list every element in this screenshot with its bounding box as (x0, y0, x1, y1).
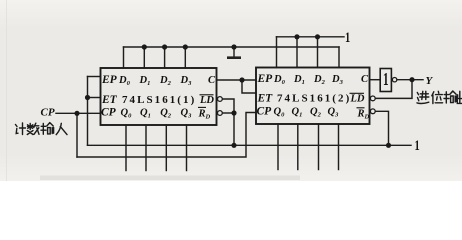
svg-text:74LS161(2): 74LS161(2) (277, 93, 351, 105)
faint scan crease left (6, 0, 7, 181)
faint bleed-through smudge bottom (40, 176, 300, 181)
text: 进位输出 (carry output) hand-drawn glyphs (417, 91, 462, 104)
wire: CP bottom rail to U2 CP (77, 113, 256, 158)
ground symbol on D rail (227, 47, 241, 58)
char 入 (56, 123, 67, 134)
svg-text:74LS161(1): 74LS161(1) (122, 94, 196, 106)
wire: U1 C output to U2 EP (217, 79, 257, 81)
wire: U2 Q3 output stub (338, 124, 340, 170)
node: ground junction (231, 44, 236, 49)
pin bubble: U2 RD (370, 109, 375, 114)
pin bubble: U1 LD (218, 97, 223, 102)
svg-text:EP: EP (257, 73, 274, 85)
char 数 (27, 123, 39, 134)
wire: U1 ET stub (88, 97, 101, 99)
chip U1: 74LS161(1) body (101, 68, 217, 125)
node: U1 ET junction (85, 95, 90, 100)
char 计 (16, 123, 26, 135)
char 输 (41, 123, 54, 135)
svg-text:LD: LD (350, 94, 365, 105)
svg-text:LD: LD (199, 95, 214, 106)
node: CP input junction (74, 111, 79, 116)
wire: branch from C1 node down to U2 ET (242, 80, 256, 93)
U1 pin labels row1 (101, 74, 216, 121)
wire: CP branch down to CP rail (76, 113, 78, 157)
node: U2 D1 junction (294, 34, 299, 39)
node: U2 D2 junction (315, 34, 320, 39)
pin bubble: U2 LD (370, 96, 375, 101)
wire: U1 LD to logic-1 vertical (222, 99, 234, 145)
node: Y to LD2 junction (409, 77, 414, 82)
wire: CP input line (56, 112, 101, 114)
wire: U2 RD down to 1-rail (375, 111, 388, 145)
gate G1 output bubble (392, 78, 396, 82)
char 出 (clipped at edge) (457, 91, 462, 103)
wire: U1 Q0 output stub (125, 125, 127, 171)
node: U1 D3 junction (183, 44, 188, 49)
wire: U2 Q1 output stub (297, 124, 299, 170)
paper background (0, 0, 462, 181)
pin bubble: U1 RD (218, 111, 223, 116)
overline U1 RD (198, 106, 206, 108)
node: C1 branch junction (239, 77, 244, 82)
node: U1 D1 junction (142, 44, 147, 49)
wire: U1 Q2 output stub (165, 125, 167, 171)
overline U2 LD (350, 92, 365, 94)
node: U1 LD/RD junction (231, 110, 236, 115)
svg-text:ET: ET (101, 94, 118, 106)
svg-text:1: 1 (345, 29, 350, 45)
wire: U1 EP stub (88, 76, 101, 78)
svg-text:C: C (208, 75, 216, 86)
char 进 (417, 91, 429, 103)
svg-text:EP: EP (101, 74, 118, 86)
wire: U1 D1 drop (143, 47, 145, 68)
svg-text:1: 1 (415, 137, 420, 153)
wire: U2 D1 drop (296, 37, 298, 68)
wire: U2 C to inverter G1 (370, 79, 381, 81)
svg-text:CP: CP (41, 107, 55, 119)
chip U2: 74LS161(2) body (256, 68, 370, 125)
char 输 (second) (444, 91, 457, 103)
char 位 (432, 91, 443, 103)
wire: logic-1 bottom rail y=145 (88, 144, 412, 146)
wire: U1 D3 drop (184, 47, 186, 68)
wire: U2 Q2 output stub (318, 124, 320, 170)
wire: U1 RD to logic-1 vertical (222, 112, 234, 114)
svg-text:ET: ET (257, 93, 274, 105)
svg-text:CP: CP (257, 106, 273, 118)
U2 pin labels (257, 73, 370, 121)
svg-text:1: 1 (383, 71, 389, 90)
svg-text:CP: CP (101, 107, 117, 119)
wire: U1 Q1 output stub (145, 125, 147, 171)
wire: logic-1 rail above U2 y=36.8 (277, 36, 345, 38)
overline U1 LD (200, 94, 214, 96)
wire: inverter output to Y (397, 79, 423, 81)
wire: U1 D2 drop (164, 47, 166, 68)
node: U1 D2 junction (162, 44, 167, 49)
svg-text:C: C (361, 74, 369, 85)
node: U1 controls to 1-rail junction (231, 143, 236, 148)
wire: U2 Q0 output stub (277, 124, 279, 170)
inverter gate G1 (IEC "1" box) (380, 69, 391, 92)
wire: U2 D3 drop from grounded rail (338, 47, 340, 68)
wire: U1 D0 drop (123, 47, 125, 68)
wire: U1 EP/ET tie vertical to 1-rail (87, 77, 89, 146)
node: U2 RD to 1-rail junction (386, 143, 391, 148)
wire: D-input rail of U1 (grounded rail) y=47 (124, 46, 340, 48)
wire: U1 Q3 output stub (186, 125, 188, 171)
wire: U2 D0 drop (276, 37, 278, 68)
wire: Y node to U2 LD (375, 80, 412, 99)
text: 计数输入 (count input) hand-drawn glyphs (16, 123, 68, 135)
overline U2 RD (357, 107, 365, 109)
wire: U2 D2 drop (317, 37, 319, 68)
